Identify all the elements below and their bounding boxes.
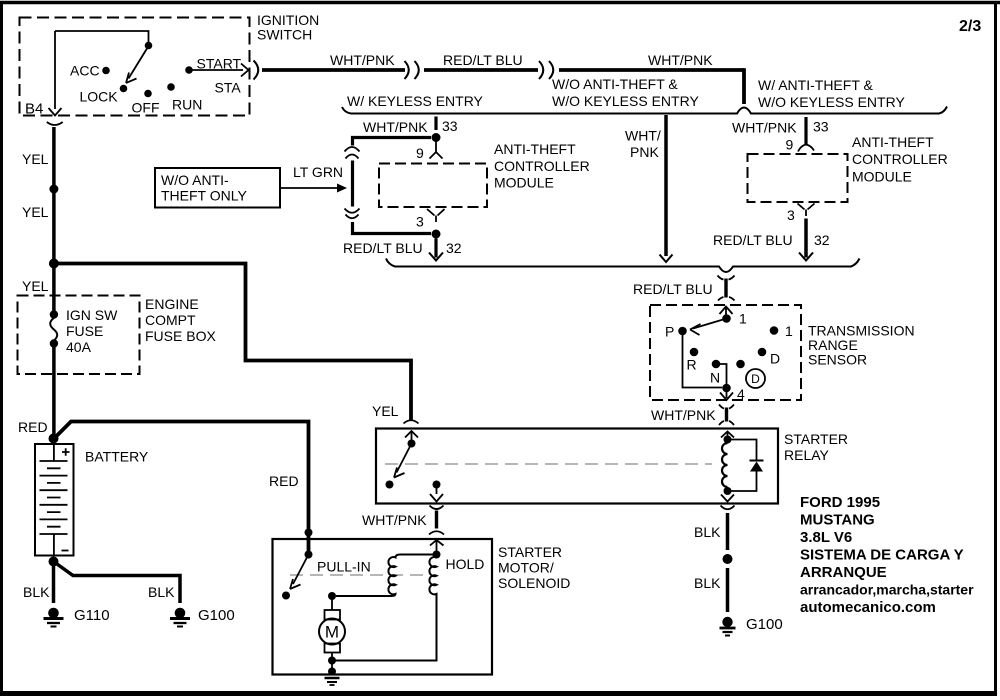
svg-text:M: M <box>325 623 339 642</box>
svg-text:WHT/PNK: WHT/PNK <box>362 512 427 528</box>
svg-text:W/O KEYLESS ENTRY: W/O KEYLESS ENTRY <box>758 94 905 110</box>
svg-text:WHT/PNK: WHT/PNK <box>732 120 797 136</box>
svg-text:RELAY: RELAY <box>784 447 830 463</box>
svg-text:STARTER: STARTER <box>784 431 848 447</box>
svg-text:automecanico.com: automecanico.com <box>800 599 936 616</box>
svg-text:BLK: BLK <box>148 584 175 600</box>
svg-text:G100: G100 <box>198 607 235 624</box>
svg-text:3: 3 <box>416 214 424 230</box>
svg-text:IGN SW: IGN SW <box>66 307 118 323</box>
svg-text:3.8L V6: 3.8L V6 <box>800 529 852 546</box>
svg-text:SENSOR: SENSOR <box>808 352 867 368</box>
svg-text:CONTROLLER: CONTROLLER <box>494 158 590 174</box>
svg-text:RUN: RUN <box>172 97 202 113</box>
svg-text:RED/LT BLU: RED/LT BLU <box>443 52 523 68</box>
svg-text:SISTEMA DE CARGA Y: SISTEMA DE CARGA Y <box>800 547 964 564</box>
svg-text:OFF: OFF <box>132 100 160 116</box>
svg-text:LOCK: LOCK <box>80 89 119 105</box>
svg-text:SWITCH: SWITCH <box>257 27 312 43</box>
svg-text:3: 3 <box>787 207 795 223</box>
svg-text:SOLENOID: SOLENOID <box>498 575 570 591</box>
svg-text:WHT/PNK: WHT/PNK <box>330 52 395 68</box>
svg-text:ACC: ACC <box>70 63 100 79</box>
svg-text:MODULE: MODULE <box>494 175 554 191</box>
svg-text:RED/LT BLU: RED/LT BLU <box>713 232 793 248</box>
svg-text:WHT/: WHT/ <box>625 128 661 144</box>
svg-text:RED/LT BLU: RED/LT BLU <box>633 281 713 297</box>
svg-text:D: D <box>770 351 780 367</box>
svg-text:MODULE: MODULE <box>852 169 912 185</box>
svg-text:RED: RED <box>18 419 48 435</box>
svg-text:LT GRN: LT GRN <box>293 164 343 180</box>
svg-text:W/ ANTI-THEFT &: W/ ANTI-THEFT & <box>758 77 874 93</box>
svg-text:W/ KEYLESS ENTRY: W/ KEYLESS ENTRY <box>347 93 484 109</box>
svg-text:ENGINE: ENGINE <box>145 296 199 312</box>
svg-text:arrancador,marcha,starter: arrancador,marcha,starter <box>800 582 974 598</box>
svg-text:YEL: YEL <box>372 403 399 419</box>
svg-text:9: 9 <box>416 145 424 161</box>
svg-text:W/O ANTI-: W/O ANTI- <box>161 172 229 188</box>
svg-text:1: 1 <box>785 323 793 339</box>
svg-text:32: 32 <box>446 240 462 256</box>
svg-text:ARRANQUE: ARRANQUE <box>800 564 887 581</box>
svg-text:FUSE: FUSE <box>66 323 103 339</box>
svg-text:PNK: PNK <box>630 144 659 160</box>
svg-text:RED: RED <box>269 473 299 489</box>
svg-text:START: START <box>197 56 242 72</box>
svg-text:YEL: YEL <box>22 151 49 167</box>
svg-text:33: 33 <box>813 119 829 135</box>
svg-text:THEFT ONLY: THEFT ONLY <box>161 188 247 204</box>
svg-text:BLK: BLK <box>694 575 721 591</box>
svg-text:4: 4 <box>737 386 745 402</box>
svg-text:MUSTANG: MUSTANG <box>800 512 875 529</box>
svg-text:32: 32 <box>814 232 830 248</box>
svg-text:BLK: BLK <box>23 584 50 600</box>
svg-text:YEL: YEL <box>22 278 49 294</box>
svg-text:D: D <box>751 372 760 386</box>
svg-text:2/3: 2/3 <box>959 18 981 35</box>
svg-text:W/O KEYLESS ENTRY: W/O KEYLESS ENTRY <box>552 93 699 109</box>
svg-text:STA: STA <box>215 80 242 96</box>
svg-text:YEL: YEL <box>22 204 49 220</box>
svg-text:MOTOR/: MOTOR/ <box>498 560 554 576</box>
svg-text:40A: 40A <box>66 339 92 355</box>
svg-text:STARTER: STARTER <box>498 544 562 560</box>
svg-text:WHT/PNK: WHT/PNK <box>648 52 713 68</box>
svg-text:COMPT: COMPT <box>145 312 196 328</box>
svg-text:G110: G110 <box>74 607 110 624</box>
svg-text:ANTI-THEFT: ANTI-THEFT <box>852 134 934 150</box>
svg-text:WHT/PNK: WHT/PNK <box>363 119 428 135</box>
svg-text:R: R <box>687 357 697 373</box>
svg-text:N: N <box>710 370 720 386</box>
svg-text:FUSE BOX: FUSE BOX <box>145 328 216 344</box>
svg-text:RED/LT BLU: RED/LT BLU <box>343 240 423 256</box>
svg-text:G100: G100 <box>746 616 783 633</box>
svg-text:ANTI-THEFT: ANTI-THEFT <box>494 141 576 157</box>
svg-text:BATTERY: BATTERY <box>85 449 149 465</box>
svg-text:BLK: BLK <box>694 524 721 540</box>
svg-text:1: 1 <box>739 311 747 327</box>
svg-text:9: 9 <box>786 137 794 153</box>
svg-text:B4: B4 <box>25 101 43 118</box>
svg-text:PULL-IN: PULL-IN <box>317 559 371 575</box>
svg-text:33: 33 <box>442 118 458 134</box>
svg-text:W/O ANTI-THEFT &: W/O ANTI-THEFT & <box>552 76 678 92</box>
svg-text:HOLD: HOLD <box>446 556 485 572</box>
svg-text:WHT/PNK: WHT/PNK <box>651 407 716 423</box>
svg-text:FORD 1995: FORD 1995 <box>800 494 880 511</box>
svg-text:P: P <box>665 324 674 340</box>
svg-text:CONTROLLER: CONTROLLER <box>852 151 948 167</box>
